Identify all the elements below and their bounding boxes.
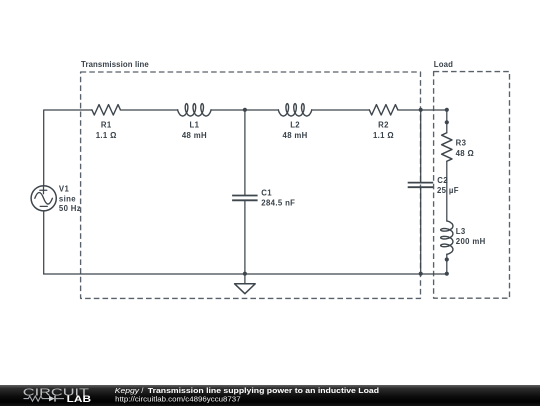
- svg-text:L1: L1: [189, 120, 199, 129]
- C1 bottom dot: [243, 272, 247, 276]
- wire node B to load corner: [421, 109, 447, 111]
- svg-text:48 mH: 48 mH: [182, 131, 207, 140]
- capacitor C1 plates: [232, 196, 258, 201]
- ground stub: [244, 274, 246, 284]
- wire top rail left V1 to R1: [44, 110, 92, 186]
- wire R1 to L1: [120, 109, 177, 111]
- svg-text:R1: R1: [101, 120, 112, 129]
- svg-text:R2: R2: [378, 120, 389, 129]
- svg-text:V1: V1: [59, 185, 70, 194]
- capacitor C1 stem top: [244, 110, 246, 195]
- wire R3 to L3: [446, 161, 448, 221]
- svg-text:48 mH: 48 mH: [283, 131, 308, 140]
- wire L2 to R2: [312, 109, 370, 111]
- V1 minus sign: [40, 205, 47, 207]
- inductor L3: [441, 221, 453, 254]
- junction node dots: [243, 108, 449, 276]
- node A dot (C1 top): [243, 108, 247, 112]
- V1 plus sign: [40, 187, 47, 194]
- node B dot (C2 top): [419, 108, 423, 112]
- svg-text:200 mH: 200 mH: [456, 237, 486, 246]
- svg-text:LAB: LAB: [67, 393, 92, 403]
- svg-text:Load: Load: [434, 60, 454, 69]
- V1 sine wave: [35, 193, 53, 205]
- wire L3 to bottom rail: [446, 254, 448, 274]
- svg-text:L3: L3: [456, 227, 466, 236]
- bottom rail wire: [44, 273, 447, 275]
- svg-text:R3: R3: [456, 139, 467, 148]
- resistor R1: [92, 105, 121, 115]
- svg-text:48 Ω: 48 Ω: [456, 149, 475, 158]
- inductor L2: [278, 104, 311, 116]
- logo zigzag wire: [24, 396, 50, 401]
- capacitor C2 plates: [408, 183, 434, 188]
- wire L1 to node A: [211, 109, 245, 111]
- svg-text:sine: sine: [59, 195, 76, 204]
- svg-text:50 Hz: 50 Hz: [59, 204, 81, 213]
- svg-text:C2: C2: [437, 176, 448, 185]
- svg-text:http://circuitlab.com/c4896ycc: http://circuitlab.com/c4896yccu8737: [115, 394, 241, 403]
- C2 bottom dot: [419, 272, 423, 276]
- voltage source V1 circle: [31, 186, 56, 211]
- ground symbol: [235, 284, 256, 294]
- svg-text:284.5 nF: 284.5 nF: [261, 199, 295, 208]
- wire R2 to node B: [398, 109, 421, 111]
- svg-text:25 µF: 25 µF: [437, 186, 459, 195]
- wire node A to L2: [245, 109, 279, 111]
- svg-text:L2: L2: [290, 120, 300, 129]
- wire load corner down to R3: [446, 110, 448, 133]
- resistor R2: [369, 105, 398, 115]
- load bottom corner dot: [445, 272, 449, 276]
- svg-text:1.1 Ω: 1.1 Ω: [373, 131, 394, 140]
- resistor R3: [442, 133, 452, 162]
- load box: [434, 72, 510, 299]
- R3 top terminal dot: [445, 120, 449, 124]
- logo diode: [49, 395, 55, 401]
- transmission line box: [81, 72, 421, 298]
- capacitor C2 stem bottom: [420, 188, 422, 274]
- wire V1 bottom to rail: [43, 211, 45, 274]
- inductor L1: [178, 104, 211, 116]
- footer bar: [0, 385, 540, 406]
- capacitor C2 stem top: [420, 110, 422, 182]
- svg-text:Transmission line: Transmission line: [81, 60, 149, 69]
- svg-text:C1: C1: [261, 188, 272, 197]
- svg-text:1.1 Ω: 1.1 Ω: [96, 131, 117, 140]
- load top corner dot: [445, 108, 449, 112]
- capacitor C1 stem bottom: [244, 201, 246, 274]
- L3 bottom terminal dot: [445, 257, 449, 261]
